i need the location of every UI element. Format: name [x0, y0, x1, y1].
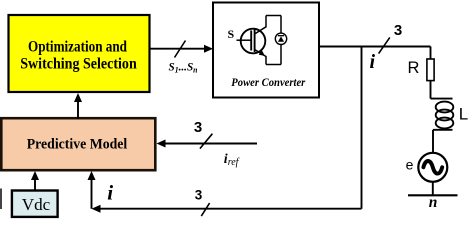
- svg-text:n: n: [429, 194, 438, 211]
- svg-text:Switching Selection: Switching Selection: [20, 56, 137, 73]
- svg-text:3: 3: [394, 22, 402, 39]
- svg-text:L: L: [459, 105, 468, 124]
- svg-text:3: 3: [195, 187, 203, 202]
- svg-text:i: i: [370, 51, 376, 73]
- svg-text:R: R: [408, 59, 420, 77]
- svg-text:3: 3: [194, 119, 202, 136]
- svg-text:Optimization and: Optimization and: [28, 39, 127, 56]
- svg-text:Power Converter: Power Converter: [231, 75, 305, 89]
- svg-text:i: i: [107, 180, 113, 204]
- svg-text:S: S: [228, 27, 235, 41]
- svg-text:Vdc: Vdc: [22, 195, 51, 214]
- svg-text:Predictive Model: Predictive Model: [27, 137, 128, 153]
- svg-text:e: e: [406, 156, 414, 172]
